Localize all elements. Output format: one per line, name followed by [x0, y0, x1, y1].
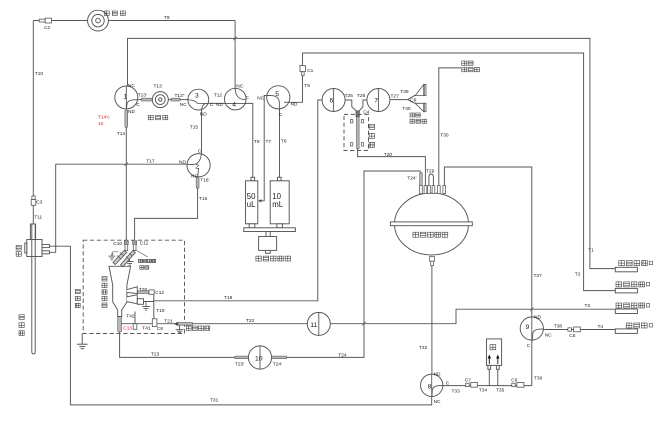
svg-text:7: 7 [374, 98, 378, 105]
svg-text:C: C [527, 343, 531, 349]
svg-text:T18: T18 [224, 295, 233, 301]
svg-text:T15: T15 [190, 125, 199, 131]
svg-text:T20: T20 [384, 152, 393, 158]
svg-text:C11: C11 [140, 241, 149, 247]
svg-text:C13: C13 [123, 326, 132, 332]
svg-text:T23: T23 [151, 351, 160, 357]
svg-text:uL: uL [247, 200, 256, 209]
svg-text:ND: ND [200, 111, 207, 117]
svg-text:T13': T13' [138, 92, 147, 98]
svg-text:T2: T2 [575, 272, 581, 278]
svg-text:T8: T8 [254, 139, 260, 145]
svg-text:T38: T38 [554, 324, 563, 330]
svg-text:NC: NC [191, 174, 198, 180]
svg-text:T14: T14 [117, 131, 126, 137]
svg-text:T42: T42 [126, 313, 135, 319]
svg-text:C: C [446, 381, 450, 387]
svg-text:T34: T34 [479, 388, 488, 394]
svg-text:T13: T13 [154, 84, 163, 90]
svg-text:T36: T36 [534, 375, 543, 381]
svg-text:T23': T23' [235, 361, 244, 367]
svg-text:T24': T24' [407, 176, 416, 182]
svg-text:T9: T9 [164, 15, 170, 21]
svg-text:ND: ND [534, 315, 541, 321]
svg-text:ND: ND [128, 109, 135, 115]
svg-text:T11: T11 [34, 215, 42, 221]
svg-text:T14'c: T14'c [98, 114, 110, 120]
svg-text:C1: C1 [307, 68, 313, 74]
svg-text:T12: T12 [214, 93, 223, 99]
svg-text:NC: NC [257, 95, 264, 101]
svg-text:T25: T25 [345, 93, 354, 99]
svg-text:T22: T22 [246, 318, 255, 324]
svg-text:C: C [210, 102, 214, 108]
svg-text:ND: ND [179, 160, 186, 166]
svg-text:9: 9 [526, 324, 530, 331]
svg-text:T1: T1 [588, 247, 594, 253]
svg-text:5: 5 [275, 91, 279, 98]
svg-text:T10: T10 [35, 71, 44, 77]
svg-text:T13'': T13'' [175, 93, 185, 99]
svg-text:C: C [136, 102, 140, 108]
svg-text:T32: T32 [419, 345, 428, 351]
svg-text:T24': T24' [273, 361, 282, 367]
svg-text:C5: C5 [569, 333, 575, 339]
svg-text:ND: ND [216, 102, 223, 108]
svg-text:6: 6 [330, 98, 334, 105]
svg-text:NC: NC [236, 83, 243, 89]
svg-text:10: 10 [98, 121, 104, 127]
svg-text:C: C [279, 112, 283, 118]
svg-text:C7: C7 [465, 377, 471, 383]
svg-text:11: 11 [310, 322, 317, 329]
svg-text:T30: T30 [440, 132, 449, 138]
svg-text:T16': T16' [200, 177, 209, 183]
svg-text:T31: T31 [210, 398, 219, 404]
svg-text:T28: T28 [139, 287, 148, 293]
svg-text:T3: T3 [585, 303, 591, 309]
svg-text:NC: NC [434, 399, 441, 405]
svg-text:T7: T7 [266, 139, 272, 145]
svg-text:T26: T26 [357, 93, 366, 99]
svg-text:NC: NC [545, 333, 552, 339]
svg-text:4: 4 [232, 102, 236, 109]
svg-text:8: 8 [428, 383, 432, 390]
svg-text:NC: NC [128, 83, 135, 89]
svg-text:T17: T17 [146, 159, 155, 165]
svg-text:mL: mL [272, 200, 283, 209]
svg-text:ND: ND [291, 101, 298, 107]
svg-text:3: 3 [195, 93, 199, 100]
svg-text:C10: C10 [113, 241, 122, 247]
svg-text:T41: T41 [142, 326, 151, 332]
svg-text:C8: C8 [157, 326, 163, 332]
svg-text:C: C [245, 95, 249, 101]
svg-text:T33: T33 [452, 389, 461, 395]
svg-text:T40: T40 [402, 106, 411, 112]
svg-text:T29: T29 [426, 169, 435, 175]
svg-text:C3: C3 [36, 200, 42, 206]
svg-text:T37: T37 [534, 273, 543, 279]
svg-text:T5: T5 [304, 83, 310, 89]
svg-text:C2: C2 [44, 25, 50, 31]
svg-text:10: 10 [255, 356, 263, 363]
svg-text:C6: C6 [511, 377, 517, 383]
svg-text:T35: T35 [496, 388, 505, 394]
svg-text:T4: T4 [598, 324, 604, 330]
svg-text:T16: T16 [199, 196, 208, 202]
svg-text:T27: T27 [391, 94, 400, 100]
svg-text:ND: ND [434, 371, 441, 377]
svg-text:T19: T19 [156, 308, 165, 314]
svg-text:2: 2 [195, 164, 199, 171]
svg-text:C12: C12 [155, 290, 164, 296]
svg-text:T6: T6 [281, 139, 287, 145]
svg-text:NC: NC [180, 102, 187, 108]
svg-text:C4: C4 [363, 109, 369, 115]
svg-text:1: 1 [123, 94, 127, 101]
svg-text:T21: T21 [164, 318, 173, 324]
svg-text:T24: T24 [338, 352, 347, 358]
svg-text:C: C [198, 149, 202, 155]
svg-text:T39: T39 [400, 89, 409, 95]
svg-text:C9: C9 [410, 97, 416, 103]
